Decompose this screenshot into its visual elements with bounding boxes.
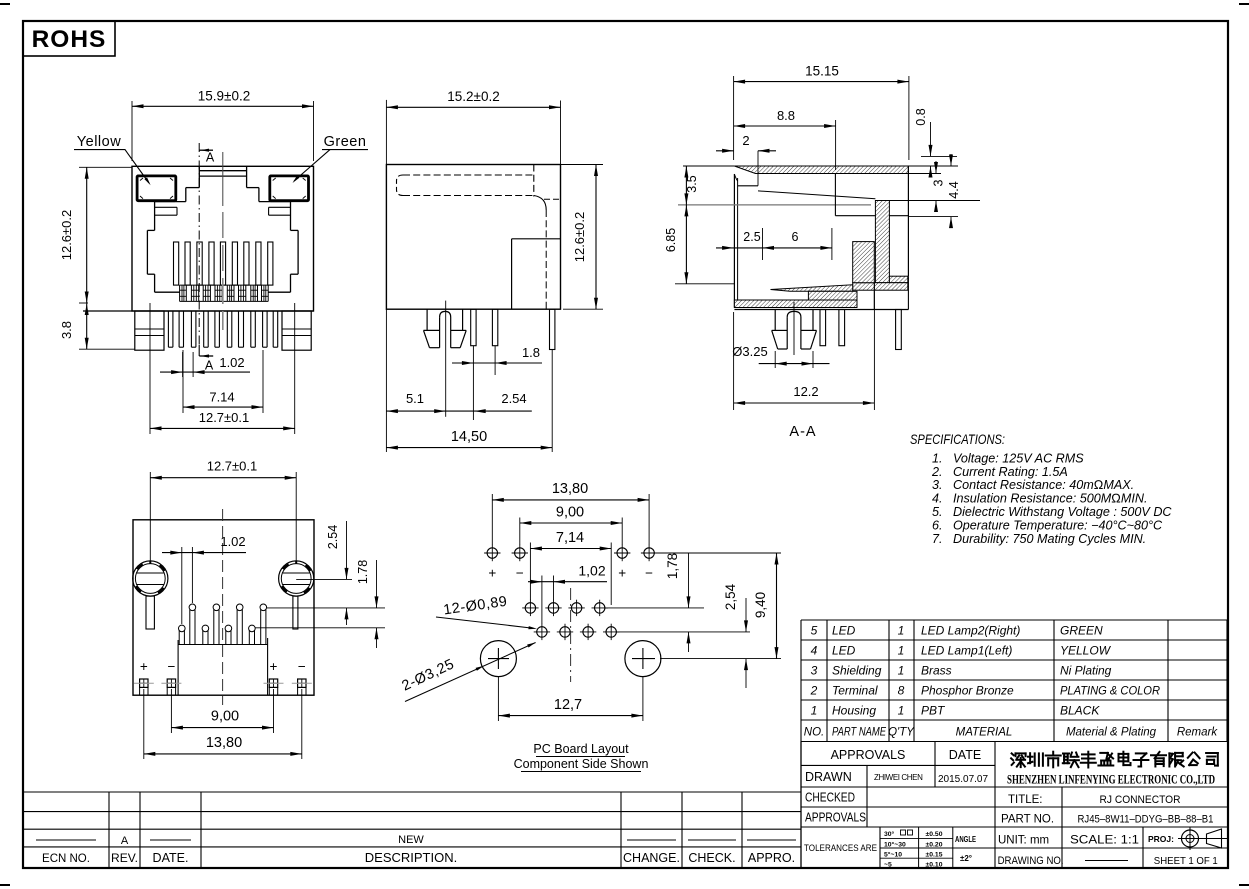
svg-text:3.5: 3.5	[685, 175, 699, 192]
svg-text:1.: 1.	[932, 451, 943, 465]
svg-text:1.02: 1.02	[220, 534, 245, 549]
section pin 3	[896, 310, 902, 350]
svg-text:LED: LED	[832, 624, 856, 638]
corner crop marks	[0, 3, 10, 5]
svg-text:±0.50: ±0.50	[926, 831, 943, 838]
svg-text:8.8: 8.8	[777, 108, 795, 123]
svg-text:12.2: 12.2	[793, 384, 818, 399]
svg-text:A: A	[206, 151, 215, 165]
front view contact teeth	[174, 242, 179, 285]
section pin 1	[820, 310, 826, 346]
svg-text:3: 3	[811, 664, 818, 678]
svg-text:1.78: 1.78	[356, 560, 370, 584]
svg-text:A: A	[121, 835, 129, 847]
svg-text:Component Side Shown: Component Side Shown	[514, 757, 649, 771]
side view pin C	[550, 309, 555, 349]
section contact sliver hatched	[771, 285, 853, 292]
svg-text:12.6±0.2: 12.6±0.2	[572, 212, 587, 263]
front view LED window right	[270, 176, 309, 201]
dimension 9,00	[170, 689, 172, 733]
svg-text:12.7±0.1: 12.7±0.1	[199, 410, 250, 425]
svg-text:0.8: 0.8	[914, 108, 928, 125]
dimension Ø3.25	[774, 351, 776, 368]
dimension 3 right	[908, 173, 941, 175]
bottom view body outline	[133, 520, 314, 695]
svg-text:5: 5	[811, 624, 818, 638]
svg-text:DATE: DATE	[949, 748, 981, 762]
svg-text:1.8: 1.8	[522, 345, 540, 360]
bottom view LED pads	[140, 679, 148, 687]
svg-text:13,80: 13,80	[552, 481, 588, 497]
svg-text:DRAWING NO.: DRAWING NO.	[998, 855, 1064, 867]
svg-text:GREEN: GREEN	[1060, 624, 1103, 638]
svg-text:−: −	[298, 659, 306, 674]
pcb layout mounting hole right	[625, 641, 661, 677]
dimension 14,50	[386, 447, 552, 449]
svg-text:6.85: 6.85	[664, 228, 678, 252]
svg-text:APPRO.: APPRO.	[748, 851, 795, 865]
svg-text:12.7±0.1: 12.7±0.1	[207, 459, 258, 474]
svg-text:CHECK.: CHECK.	[688, 851, 735, 865]
svg-text:TOLERANCES ARE: TOLERANCES ARE	[804, 843, 877, 853]
side view post center line	[445, 301, 447, 417]
dimension 1.02 bottom	[181, 547, 183, 624]
dimension 12.7±0.1 front	[149, 303, 151, 434]
svg-text:Shielding: Shielding	[832, 664, 882, 678]
svg-text:9,00: 9,00	[211, 709, 239, 725]
section plastic wall hatched	[875, 201, 889, 283]
svg-text:Housing: Housing	[832, 704, 876, 718]
dimension 2.5 and 6	[762, 228, 764, 260]
svg-text:PLATING & COLOR: PLATING & COLOR	[1060, 684, 1160, 698]
section A-A shield top plate hatched	[734, 166, 908, 174]
svg-text:1: 1	[811, 704, 818, 718]
svg-text:Phosphor Bronze: Phosphor Bronze	[921, 684, 1014, 698]
svg-text:SPECIFICATIONS:: SPECIFICATIONS:	[910, 431, 1005, 447]
dimension 9,40	[776, 553, 778, 659]
dimension 2.54 side	[474, 409, 486, 413]
svg-text:12.6±0.2: 12.6±0.2	[59, 210, 74, 261]
section arrow A bottom	[198, 345, 200, 356]
svg-text:PART NO.: PART NO.	[1001, 814, 1054, 826]
dimension 1.02 front	[182, 352, 184, 377]
dimension 13,80 bottom	[143, 689, 145, 759]
svg-text:Brass: Brass	[921, 664, 952, 678]
section shield front face	[733, 174, 735, 308]
svg-text:ANGLE: ANGLE	[955, 835, 976, 844]
svg-text:PBT: PBT	[921, 704, 946, 718]
svg-text:LED Lamp1(Left): LED Lamp1(Left)	[921, 644, 1012, 658]
dimension 7.14	[182, 350, 184, 413]
svg-text:12,7: 12,7	[554, 697, 582, 713]
dimension 15.9±0.2	[131, 101, 133, 161]
svg-text:4: 4	[811, 644, 818, 658]
svg-text:ZHIWEI CHEN: ZHIWEI CHEN	[874, 773, 923, 782]
dimension 3.5	[683, 165, 734, 167]
svg-text:2: 2	[810, 684, 818, 698]
svg-text:TITLE:: TITLE:	[1008, 794, 1043, 806]
svg-text:1: 1	[898, 664, 905, 678]
pcb layout mounting hole left	[480, 641, 516, 677]
svg-text:1,02: 1,02	[578, 563, 605, 579]
section middle block hatched	[853, 242, 875, 283]
svg-text:Material & Plating: Material & Plating	[1066, 727, 1157, 739]
svg-text:Durability: 750 Mating Cycl: Durability: 750 Mating Cycles MIN.	[953, 532, 1146, 546]
side view pin A	[471, 309, 476, 346]
svg-text:~5: ~5	[884, 861, 892, 868]
svg-text:Terminal: Terminal	[832, 684, 878, 698]
svg-text:REV.: REV.	[111, 851, 138, 865]
svg-text:Voltage: 125V AC RMS: Voltage: 125V AC RMS	[953, 451, 1084, 465]
svg-text:9,00: 9,00	[556, 505, 584, 521]
svg-text:3.8: 3.8	[59, 321, 74, 339]
svg-text:Dielectric Withstang Voltage: Dielectric Withstang Voltage : 500V DC	[953, 505, 1172, 519]
svg-text:3.: 3.	[932, 478, 943, 492]
side view latch post	[426, 309, 428, 330]
svg-text:15.9±0.2: 15.9±0.2	[198, 89, 250, 104]
svg-text:Operature Temperature: −40°C: Operature Temperature: −40°C~80°C	[953, 519, 1163, 533]
svg-text:LED: LED	[832, 644, 856, 658]
section right edge	[907, 166, 909, 276]
side view dashed slot	[403, 174, 534, 176]
svg-text:Q'TY: Q'TY	[888, 727, 915, 739]
svg-text:15.2±0.2: 15.2±0.2	[447, 89, 499, 104]
dimension 12.6±0.2 front	[79, 166, 132, 168]
pcb layout LED holes	[487, 548, 497, 558]
svg-text:CHANGE.: CHANGE.	[623, 851, 680, 865]
svg-text:1: 1	[898, 624, 905, 638]
svg-text:2.54: 2.54	[501, 391, 526, 406]
dimension 1.8	[452, 362, 542, 364]
svg-text:3: 3	[932, 179, 946, 186]
bottom view center line	[222, 509, 224, 705]
dimension 0.8	[921, 155, 957, 157]
svg-text:ECN NO.: ECN NO.	[42, 853, 90, 865]
side view body outline	[386, 165, 560, 310]
svg-text:9,40: 9,40	[753, 592, 768, 618]
section arrow A top	[199, 149, 213, 151]
section middle layer	[808, 291, 857, 300]
svg-text:1: 1	[898, 644, 905, 658]
svg-text:8: 8	[898, 684, 905, 698]
revision strip grid	[23, 791, 801, 793]
dimension 9,00 pcb	[519, 518, 521, 546]
svg-text:2,54: 2,54	[723, 583, 738, 610]
svg-text:2015.07.07: 2015.07.07	[938, 774, 988, 785]
svg-text:1: 1	[898, 704, 905, 718]
svg-text:7.: 7.	[932, 532, 943, 546]
svg-text:1,78: 1,78	[665, 553, 680, 579]
svg-text:ROHS: ROHS	[32, 26, 107, 53]
svg-text:RJ45–8W11–DDYG–BB–88–B1: RJ45–8W11–DDYG–BB–88–B1	[1078, 814, 1214, 826]
svg-text:14,50: 14,50	[451, 429, 487, 445]
svg-text:4.4: 4.4	[947, 181, 961, 198]
bottom view post legs	[146, 596, 154, 629]
company name chinese	[1011, 752, 1218, 768]
bottom view contact comb	[178, 630, 180, 644]
dimension 12.2	[733, 312, 735, 410]
bottom view screw post right	[279, 561, 314, 596]
svg-text:10°~30: 10°~30	[884, 840, 906, 848]
pcb layout center line	[570, 588, 572, 682]
section right step hatched	[889, 276, 907, 283]
front view center line	[222, 152, 224, 206]
svg-text:Green: Green	[324, 134, 367, 150]
dimension 2.54 bottom	[296, 578, 352, 580]
svg-text:LED Lamp2(Right): LED Lamp2(Right)	[921, 624, 1020, 638]
section lower band hatched	[853, 283, 908, 291]
svg-text:−: −	[516, 566, 524, 581]
svg-text:+: +	[140, 659, 148, 674]
svg-text:2.54: 2.54	[326, 525, 340, 549]
front view body outline	[132, 166, 314, 311]
svg-text:SCALE: 1:1: SCALE: 1:1	[1070, 835, 1139, 847]
svg-text:APPROVALS: APPROVALS	[831, 748, 906, 762]
dimension 13,80 pcb	[491, 494, 493, 545]
dimension 3.8	[86, 304, 88, 350]
front view section line A-A	[198, 143, 200, 345]
svg-text:CHECKED: CHECKED	[805, 791, 855, 805]
side view internal step edge	[533, 165, 535, 197]
svg-text:+: +	[618, 566, 626, 581]
dimension 12.6±0.2 side	[561, 164, 604, 166]
svg-text:4.: 4.	[932, 492, 943, 506]
section bottom edge	[734, 309, 908, 311]
svg-text:A: A	[205, 359, 214, 373]
svg-text:±2°: ±2°	[960, 854, 972, 863]
section contact grey line	[678, 204, 871, 206]
svg-text:+: +	[488, 566, 496, 581]
pcb layout contact holes lower row	[537, 627, 547, 637]
parts table grid	[801, 619, 1227, 621]
svg-text:A-A: A-A	[789, 424, 816, 440]
svg-text:6: 6	[792, 230, 799, 244]
section bottom plate hatched	[734, 300, 857, 308]
svg-text:15.15: 15.15	[805, 64, 839, 79]
side view pin B	[492, 309, 497, 346]
svg-text:PART NAME: PART NAME	[832, 727, 886, 739]
dimension 1,78 pcb	[655, 552, 781, 554]
dimension 6.85	[675, 283, 734, 285]
svg-text:Remark: Remark	[1177, 727, 1219, 739]
dimension 7,14	[529, 543, 531, 601]
svg-text:RJ CONNECTOR: RJ CONNECTOR	[1100, 794, 1181, 806]
front view shield legs	[167, 311, 169, 347]
section pin 2	[839, 310, 845, 346]
svg-text:5°~10: 5°~10	[884, 850, 902, 858]
svg-text:PROJ:: PROJ:	[1148, 834, 1174, 844]
svg-text:±0.10: ±0.10	[926, 861, 943, 868]
dimension 1,02 pcb	[541, 576, 543, 625]
svg-text:Yellow: Yellow	[77, 134, 121, 150]
front view mouth profile	[198, 166, 200, 187]
dimension 12,7 pcb	[497, 677, 499, 721]
svg-text:6.: 6.	[932, 519, 943, 533]
svg-text:7,14: 7,14	[556, 530, 584, 546]
svg-text:7.14: 7.14	[209, 390, 234, 405]
svg-text:+: +	[270, 659, 278, 674]
svg-text:APPROVALS: APPROVALS	[805, 811, 866, 825]
front view contact block grid	[179, 285, 181, 301]
dimension 2	[716, 150, 734, 152]
section latch post	[774, 310, 776, 331]
svg-text:13,80: 13,80	[206, 735, 242, 751]
bottom view screw post left	[133, 561, 168, 596]
svg-text:Contact Resistance: 40mΩMAX.: Contact Resistance: 40mΩMAX.	[953, 478, 1134, 492]
dimension 12.7±0.1 bottom	[149, 472, 151, 561]
svg-text:5.: 5.	[932, 505, 943, 519]
dimension 8.8	[835, 120, 837, 170]
dimension 2,54 pcb	[660, 658, 781, 660]
svg-text:−: −	[167, 659, 175, 674]
svg-text:−: −	[645, 566, 653, 581]
svg-text:Ni Plating: Ni Plating	[1060, 664, 1112, 678]
svg-text:Ø3.25: Ø3.25	[732, 344, 767, 359]
svg-text:BLACK: BLACK	[1060, 704, 1100, 718]
svg-text:30°: 30°	[884, 830, 895, 838]
section latch spring slope	[758, 191, 875, 199]
section rear vertical	[834, 174, 836, 216]
dimension 1.78 bottom	[255, 627, 385, 629]
svg-text:DATE.: DATE.	[153, 851, 189, 865]
svg-text:DESCRIPTION.: DESCRIPTION.	[365, 850, 457, 865]
svg-text:NEW: NEW	[398, 834, 424, 846]
svg-text:UNIT: mm: UNIT: mm	[998, 835, 1049, 847]
svg-text:±0.15: ±0.15	[926, 851, 943, 858]
front view bottom shield flange	[83, 310, 314, 312]
dimension 4.4	[908, 165, 958, 167]
front view LED window left	[137, 176, 176, 201]
section housing ledge	[738, 185, 758, 187]
dimension 15.2±0.2	[385, 100, 387, 165]
svg-text:2.: 2.	[931, 465, 943, 479]
svg-text:Current Rating: 1.5A: Current Rating: 1.5A	[953, 465, 1068, 479]
svg-text:1.02: 1.02	[219, 355, 244, 370]
svg-text:2.5: 2.5	[743, 230, 760, 244]
svg-text:SHENZHEN LINFENYING ELECTRONIC: SHENZHEN LINFENYING ELECTRONIC CO.,LTD	[1007, 773, 1215, 787]
svg-text:±0.20: ±0.20	[926, 841, 943, 848]
dimension 15.15	[733, 76, 735, 160]
dimension 5.1	[385, 309, 387, 452]
svg-text:5.1: 5.1	[406, 391, 424, 406]
svg-text:PC Board Layout: PC Board Layout	[533, 742, 629, 756]
svg-text:SHEET 1 OF 1: SHEET 1 OF 1	[1154, 855, 1218, 867]
title block grid	[800, 742, 802, 869]
svg-text:MATERIAL: MATERIAL	[956, 727, 1013, 739]
side view bottom-right step	[512, 238, 561, 240]
svg-text:DRAWN: DRAWN	[805, 770, 852, 784]
svg-text:Insulation Resistance: 500MΩ: Insulation Resistance: 500MΩMIN.	[953, 492, 1147, 506]
svg-text:2: 2	[742, 133, 749, 148]
pcb layout contact holes upper row	[525, 603, 535, 613]
svg-text:NO.: NO.	[804, 727, 824, 739]
ROHS logo box	[23, 21, 115, 56]
svg-text:YELLOW: YELLOW	[1060, 644, 1112, 658]
